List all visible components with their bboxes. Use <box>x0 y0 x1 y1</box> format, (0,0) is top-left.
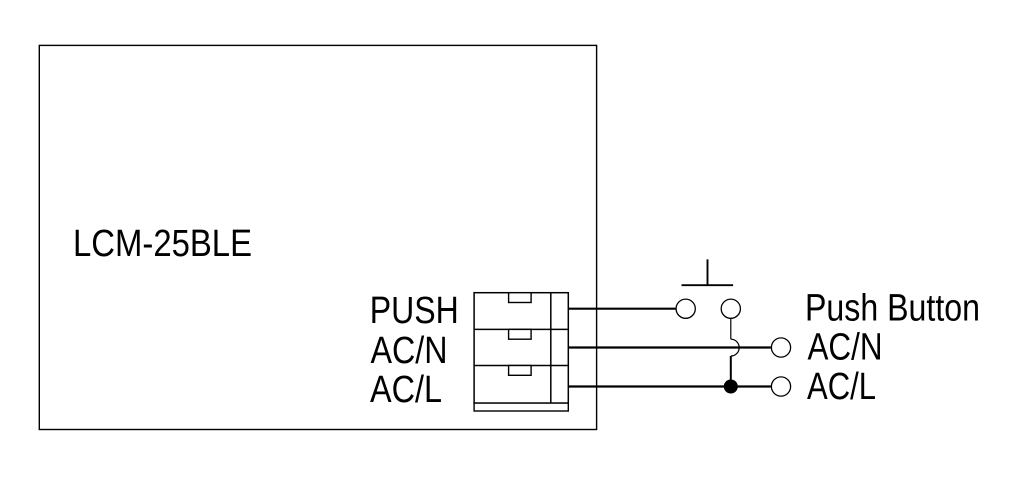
svg-text:AC/N: AC/N <box>808 326 883 368</box>
wire hop over AC/N <box>731 339 739 356</box>
terminal block bottom strip <box>474 403 568 411</box>
wire hop to junction <box>730 356 732 387</box>
terminal block TB1 outline <box>474 293 568 403</box>
module box LCM-25BLE <box>39 45 596 429</box>
terminal 1 screw notch <box>509 293 531 303</box>
terminal AC/N <box>771 338 790 357</box>
push button SW1 plunger bar <box>682 284 734 286</box>
svg-text:AC/L: AC/L <box>370 369 442 411</box>
terminal 2 screw notch <box>509 329 531 339</box>
terminal AC/L <box>771 377 790 396</box>
push button SW1 left contact <box>676 299 695 318</box>
wire AC/L <box>568 385 771 387</box>
terminal 3 screw notch <box>509 366 531 376</box>
wire AC/N <box>568 346 771 348</box>
svg-text:AC/N: AC/N <box>371 330 448 372</box>
push button SW1 right contact <box>721 299 740 318</box>
svg-text:PUSH: PUSH <box>370 290 459 332</box>
terminal block divider t2/t3 <box>474 365 568 367</box>
push button SW1 plunger stem <box>707 259 709 285</box>
terminal block divider t1/t2 <box>474 328 568 330</box>
svg-text:Push Button: Push Button <box>805 288 980 330</box>
svg-text:AC/L: AC/L <box>807 366 876 408</box>
junction on AC/L wire <box>724 380 738 394</box>
wire from SW1 right contact down <box>730 318 732 339</box>
svg-text:LCM-25BLE: LCM-25BLE <box>73 223 252 265</box>
wire PUSH <box>568 308 675 310</box>
terminal block vertical divider <box>550 293 552 403</box>
